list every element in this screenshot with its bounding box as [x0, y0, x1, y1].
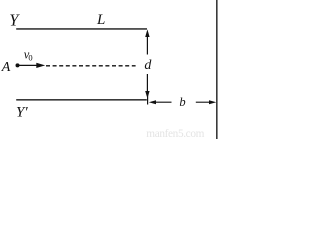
svg-text:0: 0 [28, 53, 32, 63]
b dimension right arrow head [209, 100, 216, 104]
screen line [216, 0, 218, 139]
b dimension left arrow shaft [155, 101, 172, 103]
svg-text:L: L [96, 12, 105, 28]
svg-text:b: b [179, 95, 185, 109]
plate Y (top plate line) [16, 28, 147, 30]
svg-text:Y′: Y′ [16, 104, 28, 120]
b dimension right arrow shaft [196, 101, 210, 103]
velocity arrow v0 head [36, 63, 45, 68]
svg-text:manfen5.com: manfen5.com [146, 128, 204, 139]
d dimension down arrow shaft [146, 74, 148, 92]
velocity arrow v0 shaft [19, 64, 38, 66]
dashed center line [46, 65, 136, 67]
svg-text:d: d [144, 58, 152, 73]
svg-text:A: A [1, 60, 11, 75]
node A (particle dot) [16, 63, 20, 67]
plate Y' (bottom plate line) [16, 99, 147, 101]
d dimension up arrow shaft [146, 37, 148, 55]
d dimension down arrow head [145, 91, 149, 98]
extension tick at plate end [147, 93, 149, 105]
b dimension left arrow head [149, 100, 156, 104]
d dimension up arrow head [145, 29, 149, 37]
